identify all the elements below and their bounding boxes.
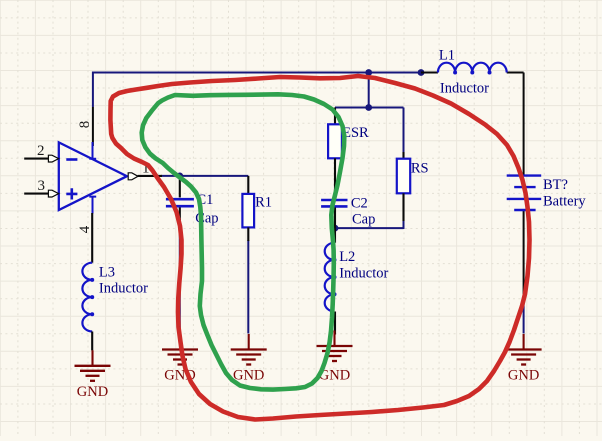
wire C1 to GND	[179, 219, 181, 334]
ground under L3	[75, 350, 111, 400]
svg-text:L1: L1	[439, 48, 455, 64]
resistor RS	[397, 152, 429, 221]
wire ESR/RS top horizontal	[335, 107, 404, 109]
capacitor C2	[321, 196, 375, 229]
svg-text:Inductor: Inductor	[440, 81, 489, 97]
op-amp U1 triangle body	[59, 142, 127, 214]
battery BT?	[507, 176, 587, 210]
svg-text:BT?: BT?	[543, 177, 568, 193]
svg-text:3: 3	[38, 178, 46, 194]
capacitor C1	[166, 176, 219, 227]
svg-text:Battery: Battery	[543, 194, 586, 210]
ground under C1	[162, 334, 198, 383]
wire left vertical from rail to op-amp pin 8	[92, 72, 94, 147]
node junction ESR top	[365, 104, 372, 111]
wire ESR/RS bottom horizontal	[335, 227, 404, 229]
node junction on rail at L1	[418, 69, 425, 76]
svg-text:Inductor: Inductor	[99, 281, 148, 297]
inductor L3	[82, 263, 148, 351]
svg-text:C2: C2	[351, 196, 368, 212]
pin 1 (output)	[128, 161, 162, 180]
svg-text:L3: L3	[99, 265, 115, 281]
svg-text:R1: R1	[255, 195, 272, 211]
wire battery to GND	[523, 211, 525, 334]
svg-text:GND: GND	[77, 384, 108, 400]
pin 4 (negative supply)	[77, 213, 93, 263]
resistor R1	[242, 176, 272, 241]
red highlight loop (outer current loop)	[110, 76, 529, 420]
inductor L2	[325, 228, 389, 334]
inductor L1	[438, 48, 507, 97]
svg-text:L2: L2	[339, 249, 355, 265]
svg-text:GND: GND	[508, 367, 539, 383]
node junction C2/L2 bottom	[332, 225, 339, 232]
ground under battery	[506, 334, 542, 383]
wire RS vertical bottom	[403, 220, 405, 229]
wire RS vertical top	[403, 108, 405, 154]
wire top rail	[93, 72, 421, 74]
svg-text:Cap: Cap	[352, 212, 375, 228]
pin 2 (inverting input)	[24, 143, 58, 162]
ground under L2	[317, 331, 353, 384]
wire battery column top	[421, 73, 524, 175]
wire op-amp output to R1 corner	[161, 175, 248, 177]
svg-text:GND: GND	[233, 367, 264, 383]
svg-text:4: 4	[77, 225, 93, 233]
wire R1 to GND	[247, 240, 249, 334]
pin 3 (non-inverting input)	[24, 178, 58, 197]
svg-text:Inductor: Inductor	[339, 266, 388, 282]
pin 8 (positive supply)	[77, 121, 93, 129]
node junction at op-amp output / C1	[176, 173, 183, 180]
svg-text:8: 8	[77, 121, 93, 129]
svg-text:RS: RS	[411, 161, 429, 177]
resistor ESR	[328, 108, 369, 199]
node junction on rail at ESR drop	[365, 69, 372, 76]
green highlight loop (inner current loop)	[142, 94, 345, 389]
ground under R1	[231, 334, 267, 383]
wire drop from rail to ESR/RS net	[368, 73, 370, 108]
svg-text:2: 2	[37, 143, 45, 159]
